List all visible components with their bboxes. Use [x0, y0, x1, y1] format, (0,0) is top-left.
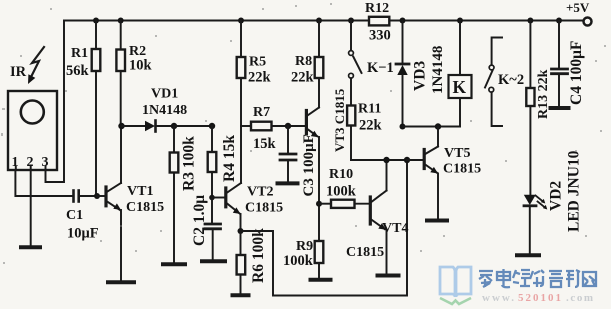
svg-text:22k: 22k: [248, 70, 272, 86]
node junction R8 top: [316, 18, 322, 24]
watermark url: [482, 292, 595, 304]
svg-text:R13 22k: R13 22k: [536, 69, 551, 119]
node junction VT1 collector / R2 / VD1: [118, 123, 124, 129]
svg-text:VD1: VD1: [151, 87, 178, 102]
svg-text:15k: 15k: [253, 136, 277, 152]
svg-text:56k: 56k: [66, 63, 90, 79]
svg-text:VT5: VT5: [444, 146, 470, 161]
capacitor C4 100uF: [552, 21, 586, 107]
wire to VT1 base: [97, 195, 105, 197]
svg-text:520101: 520101: [518, 292, 563, 304]
svg-text:R5: R5: [249, 55, 266, 70]
svg-text:R8: R8: [295, 54, 312, 69]
svg-text:C1: C1: [66, 208, 83, 223]
svg-text:10μF: 10μF: [67, 226, 99, 242]
node junction R2 top: [118, 18, 124, 24]
svg-text:VT4: VT4: [382, 221, 408, 236]
svg-text:+5V: +5V: [566, 0, 590, 15]
svg-text:C1815: C1815: [443, 162, 481, 177]
ground C4: [551, 106, 569, 110]
node +5V terminal: [584, 18, 592, 26]
relay coil K: [449, 21, 472, 127]
node junction R1/C1/VT1 base: [94, 193, 100, 199]
transistor VT4 C1815: [346, 160, 408, 274]
wire VD1 anode: [122, 125, 146, 127]
svg-text:K−1: K−1: [367, 60, 394, 76]
svg-text:LED JNU10: LED JNU10: [566, 150, 583, 232]
svg-text:330: 330: [369, 28, 391, 44]
IR receiver module: [8, 64, 57, 170]
svg-text:1N4148: 1N4148: [142, 103, 187, 118]
ground VD2: [517, 253, 539, 257]
node junction relay top: [457, 18, 463, 24]
resistor R4 15k: [208, 126, 238, 198]
node junction C3 top: [285, 123, 291, 129]
svg-text:VT1: VT1: [127, 184, 153, 199]
svg-text:22k: 22k: [359, 118, 383, 134]
resistor R10 100k: [319, 167, 369, 208]
svg-text:100k: 100k: [283, 253, 314, 269]
svg-text:VT3 C1815: VT3 C1815: [332, 88, 347, 152]
ground R3: [163, 262, 185, 266]
resistor R9 100k: [283, 239, 323, 278]
wire VD3 to relay bottom: [403, 126, 461, 128]
svg-text:R4 15k: R4 15k: [221, 135, 238, 182]
svg-text:1N4148: 1N4148: [430, 46, 446, 94]
svg-text:R9: R9: [296, 239, 313, 254]
node junction VD3 bottom: [400, 124, 406, 130]
ground C2: [202, 259, 225, 263]
node junction VT5 collector: [435, 123, 441, 129]
resistor R8 22k: [291, 21, 323, 86]
wire top +5V rail right of R12: [390, 20, 585, 22]
transistor VT1 C1815: [106, 126, 164, 281]
svg-text:R3 100k: R3 100k: [181, 136, 198, 191]
ground R9: [311, 278, 331, 282]
ground VT5 emitter: [427, 219, 447, 223]
svg-text:IR: IR: [10, 64, 27, 80]
svg-text:22k: 22k: [291, 70, 315, 86]
node junction K-1 top: [348, 18, 354, 24]
svg-text:C4 100μF: C4 100μF: [568, 41, 585, 105]
svg-text:C1815: C1815: [245, 201, 283, 216]
node junction VD1 cathode / R3: [171, 123, 177, 129]
svg-text:VD3: VD3: [412, 61, 429, 91]
svg-text:C1815: C1815: [346, 245, 384, 260]
ground IR: [21, 245, 40, 249]
ground VT1 emitter: [108, 280, 134, 284]
node junction R5 top: [238, 18, 244, 24]
svg-text:.com: .com: [566, 292, 595, 304]
wire IR pin1 to C1: [15, 170, 73, 196]
svg-text:C2 1.0μ: C2 1.0μ: [191, 195, 208, 246]
resistor R12 330: [365, 1, 391, 44]
capacitor C2 1.0u: [191, 195, 221, 260]
resistor R3 100k: [170, 126, 198, 263]
transistor VT3 C1815: [306, 78, 347, 241]
node junction C4 top: [556, 18, 562, 24]
node junction R13 top: [527, 18, 533, 24]
ground R6: [233, 293, 249, 297]
resistor R1 56k: [66, 21, 100, 197]
capacitor C3 100uF: [280, 126, 317, 197]
node junction R4 top: [209, 123, 215, 129]
resistor R6 100k: [237, 228, 267, 294]
resistor R7 15k: [241, 105, 305, 152]
resistor R5 22k: [237, 21, 272, 127]
svg-text:VD2: VD2: [548, 181, 565, 211]
LED VD2 JNU10: [524, 150, 583, 253]
svg-text:K~2: K~2: [498, 72, 524, 88]
svg-text:R11: R11: [358, 102, 381, 117]
svg-text:R12: R12: [365, 1, 389, 16]
node junction feedback wire: [404, 157, 410, 163]
svg-text:VT2: VT2: [247, 185, 273, 200]
node junction VT4 collector: [383, 157, 389, 163]
node junction VD3 top: [400, 18, 406, 24]
node junction VT3 emitter / R10 / R9: [316, 201, 322, 207]
ground VT4 emitter: [378, 274, 399, 278]
diode VD3 1N4148: [396, 21, 446, 127]
wire latch node R11/VT4/VT5 base: [351, 159, 423, 161]
wire to VT2 base: [212, 197, 224, 199]
svg-text:10k: 10k: [129, 58, 153, 74]
svg-text:100k: 100k: [326, 184, 357, 200]
node junction R1 top: [93, 18, 99, 24]
svg-text:R7: R7: [253, 105, 270, 120]
switch K-1: [349, 21, 394, 106]
svg-text:www.: www.: [482, 292, 516, 304]
node junction R4 / C2 / VT2 base: [209, 195, 215, 201]
wire feedback VT2 emitter to bottom: [241, 160, 408, 296]
diode VD1 1N4148: [142, 87, 187, 132]
wire left supply rail down to IR pin3: [46, 21, 65, 183]
svg-text:K: K: [453, 77, 467, 97]
transistor VT5 C1815: [407, 127, 481, 219]
svg-text:R1: R1: [71, 46, 88, 61]
svg-text:C1815: C1815: [126, 200, 164, 215]
node junction VT2 emitter / R6 top: [238, 228, 244, 234]
resistor R11 22k: [347, 102, 382, 161]
wire top +5V rail left of R12: [64, 20, 369, 22]
watermark site name (Chinese glyph shapes): [479, 269, 596, 287]
ground C3: [278, 181, 298, 185]
svg-text:R6 100k: R6 100k: [250, 228, 267, 283]
transistor VT2 C1815: [226, 126, 283, 231]
watermark book icon: [440, 267, 471, 304]
resistor R13 22k: [526, 21, 551, 196]
wire IR pin2 to ground: [30, 170, 32, 246]
IR beam arrow: [28, 47, 44, 84]
resistor R2 10k: [116, 21, 152, 127]
svg-text:R10: R10: [329, 167, 353, 182]
capacitor C1 10uF: [66, 191, 99, 242]
svg-text:C3 100μF: C3 100μF: [301, 134, 317, 196]
wire R3 top to R4 top: [174, 125, 212, 127]
switch K-2 relay contact: [485, 38, 524, 127]
